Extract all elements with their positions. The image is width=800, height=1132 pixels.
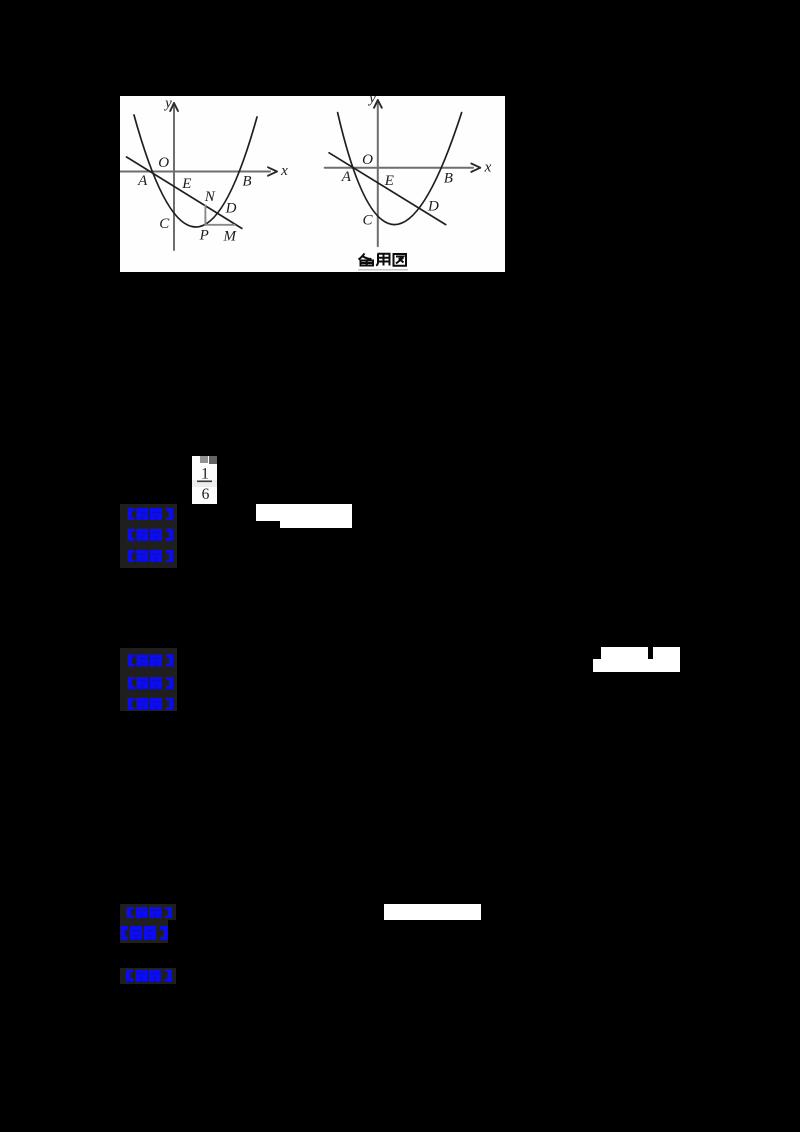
left graph: x-axis bbox=[120, 171, 270, 173]
right graph: y-axis bbox=[377, 103, 379, 246]
faint underline below caption bbox=[358, 269, 408, 270]
right graph: parabola bbox=[338, 113, 462, 225]
svg-text:C: C bbox=[362, 213, 373, 229]
svg-text:C: C bbox=[159, 216, 170, 232]
left graph: triangle PM horizontal bbox=[205, 224, 234, 226]
blue label block 3 backgrounds bbox=[120, 904, 176, 920]
figure panel (two coordinate graphs) bbox=[120, 96, 505, 272]
caption 备用图 drawn as glyph strokes bbox=[359, 254, 407, 266]
white blob B bbox=[601, 647, 649, 659]
white bar C bbox=[384, 904, 481, 921]
svg-text:x: x bbox=[484, 160, 492, 176]
svg-text:y: y bbox=[163, 96, 172, 112]
svg-text:A: A bbox=[137, 173, 148, 189]
right graph: x-axis bbox=[325, 167, 473, 169]
left graph: triangle NPM vertical NP bbox=[204, 206, 206, 225]
glyph yong bbox=[376, 254, 389, 266]
svg-text:6: 6 bbox=[202, 486, 210, 503]
blue label lines group 1 bbox=[120, 504, 177, 568]
left graph: y-axis bbox=[173, 105, 175, 250]
svg-text:O: O bbox=[362, 152, 373, 168]
glyph bei bbox=[359, 254, 374, 266]
blue label block 1 background bbox=[120, 504, 177, 568]
svg-text:O: O bbox=[158, 155, 169, 171]
left graph: parabola bbox=[134, 115, 257, 227]
white bar block A (two stacked rects) bbox=[256, 504, 352, 521]
svg-text:x: x bbox=[280, 163, 288, 179]
right graph: secant line A-D bbox=[329, 153, 446, 225]
blue label block 2 background bbox=[120, 648, 177, 712]
svg-text:y: y bbox=[367, 96, 376, 107]
glyph tu bbox=[394, 254, 407, 266]
svg-text:N: N bbox=[204, 189, 216, 205]
svg-text:P: P bbox=[199, 228, 209, 244]
svg-text:B: B bbox=[242, 174, 251, 190]
svg-text:E: E bbox=[384, 173, 394, 189]
svg-text:1: 1 bbox=[201, 465, 209, 482]
svg-text:D: D bbox=[427, 199, 439, 215]
svg-text:D: D bbox=[225, 201, 237, 217]
shared blue pseudo-glyph template bbox=[0, 0, 1, 1]
svg-text:B: B bbox=[444, 171, 453, 187]
svg-text:A: A bbox=[341, 169, 352, 185]
svg-text:E: E bbox=[181, 176, 191, 192]
fraction 1/6 white box bbox=[192, 456, 217, 504]
left graph: secant line A-D bbox=[127, 157, 242, 228]
svg-text:M: M bbox=[223, 229, 238, 245]
